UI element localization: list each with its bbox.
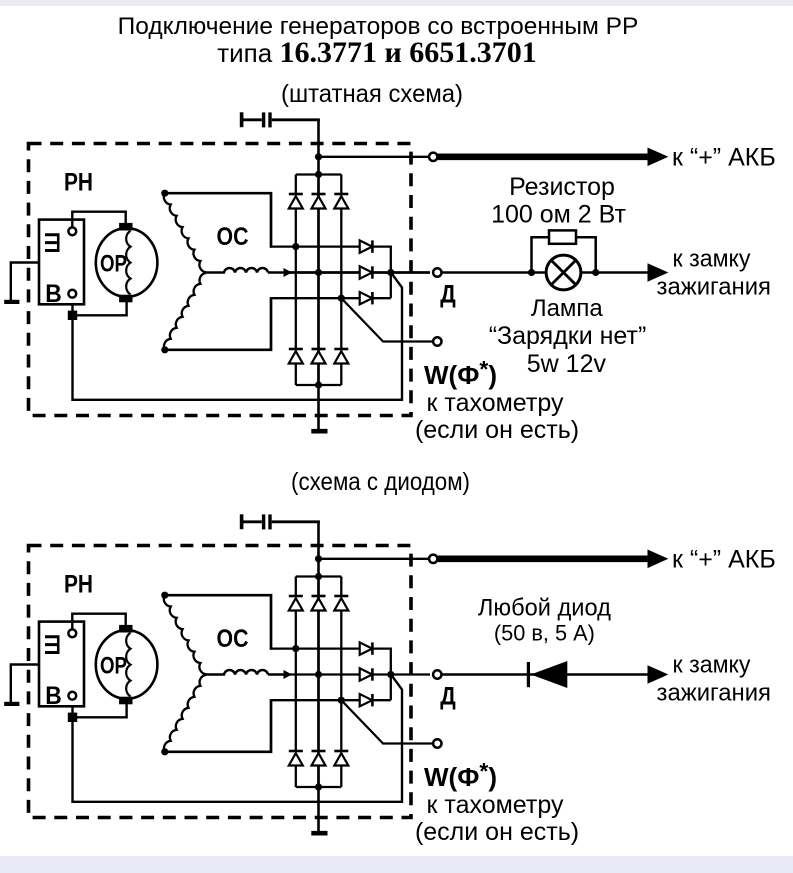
diode positive VD2 <box>312 596 326 611</box>
svg-text:В: В <box>45 280 62 308</box>
svg-text:Резистор: Резистор <box>509 173 615 201</box>
terminal V of regulator <box>68 692 76 700</box>
svg-text:зажигания: зажигания <box>657 273 772 300</box>
top page strip <box>0 0 793 6</box>
node stator tip lower <box>161 748 168 755</box>
node bottom rail junction <box>315 783 322 790</box>
diode auxiliary VD8 <box>360 668 373 680</box>
svg-text:(50 в, 5 А): (50 в, 5 А) <box>494 620 595 645</box>
node lamp right junction <box>592 269 599 276</box>
node aux output / D line <box>387 269 394 276</box>
wire rectifier column 3 <box>340 175 342 195</box>
svg-text:к тахометру: к тахометру <box>427 791 564 819</box>
wire brush minus to B corner <box>73 703 127 717</box>
wire rectifier column 1 <box>295 175 297 195</box>
svg-text:“Зарядки нет”: “Зарядки нет” <box>489 322 647 350</box>
svg-text:ОС: ОС <box>217 223 249 251</box>
rotor winding OR circle <box>96 228 158 297</box>
rectifier bottom rail <box>296 786 342 788</box>
svg-text:Ш: Ш <box>41 634 65 656</box>
diode auxiliary VD8 <box>360 266 373 278</box>
diode negative VD4 <box>289 751 303 766</box>
node phase1/column1 <box>292 243 299 250</box>
ground below rectifier <box>311 831 327 836</box>
svg-text:Д: Д <box>440 280 456 308</box>
terminal "+" output <box>429 153 437 161</box>
svg-text:(схема с диодом): (схема с диодом) <box>291 468 470 496</box>
arrow to ignition switch <box>648 665 669 684</box>
svg-text:Лампа: Лампа <box>531 295 604 322</box>
arrow to battery <box>648 550 669 569</box>
ground left chassis <box>4 300 19 304</box>
wire thick to battery <box>438 555 650 562</box>
ground below rectifier <box>311 429 327 434</box>
node phase2/column2 <box>315 269 322 276</box>
terminal "+" output <box>429 555 437 563</box>
diode auxiliary VD9 <box>360 292 373 304</box>
resistor R1 100 Ohm <box>549 230 576 243</box>
svg-text:Ш: Ш <box>41 232 65 254</box>
svg-text:Д: Д <box>440 682 456 710</box>
brush minus (bottom) <box>119 697 132 705</box>
node aux output / D line <box>387 671 394 678</box>
node phase1/column1 <box>292 645 299 652</box>
terminal W phase tap <box>433 337 441 345</box>
svg-text:ОР: ОР <box>100 251 127 278</box>
wire regulator B feed (crank down and along bottom) <box>73 675 403 802</box>
wire main plus bus vertical <box>317 522 320 832</box>
wire tachometer W tap <box>341 298 433 341</box>
generator housing dashed border <box>29 144 412 416</box>
arrow to ignition switch <box>648 263 669 282</box>
stator center phase coil horizontal <box>206 268 268 273</box>
svg-text:ОС: ОС <box>217 625 249 653</box>
svg-text:зажигания: зажигания <box>657 679 772 706</box>
wire phase 3 line <box>271 699 360 701</box>
wire coil to bridge with arrow <box>268 271 288 274</box>
diode auxiliary VD9 <box>360 694 373 706</box>
wire Sh terminal to brush plus <box>72 614 125 630</box>
voltage regulator box <box>39 220 84 305</box>
node phase3/column3 <box>338 697 345 704</box>
wire rectifier column 2 <box>317 577 319 597</box>
wire phase 2 line (center) <box>287 673 360 675</box>
node lamp left junction <box>528 269 535 276</box>
wire capacitor to bus <box>272 118 320 121</box>
svg-text:(если он есть): (если он есть) <box>415 416 579 444</box>
diode positive VD1 <box>289 194 303 209</box>
wire phase 3 line <box>271 297 360 299</box>
stator winding lower phase runs <box>165 699 271 752</box>
svg-text:РН: РН <box>64 169 93 197</box>
node phase2/column2 <box>315 671 322 678</box>
svg-text:к замку: к замку <box>673 245 751 272</box>
svg-text:к замку: к замку <box>673 651 751 678</box>
wire regulator case to ground <box>11 263 39 301</box>
brush minus (bottom) <box>119 295 132 303</box>
terminal Sh of regulator <box>68 227 76 235</box>
node stator tip lower <box>161 346 168 353</box>
arrow to battery <box>648 148 669 167</box>
wire phase 1 line <box>271 647 360 649</box>
resistor bypass wire <box>532 237 596 272</box>
diode positive VD1 <box>289 596 303 611</box>
node stator tip upper <box>161 190 168 197</box>
terminal D output <box>433 268 441 276</box>
stator winding lower phase runs <box>165 297 271 350</box>
wire D terminal to ignition switch <box>442 673 651 675</box>
rectifier top rail <box>296 173 342 175</box>
node bus/battery junction <box>315 555 322 562</box>
capacitor C2 noise-suppression <box>242 514 270 529</box>
node corner square at B wire <box>68 713 77 722</box>
stator winding upper phase runs <box>165 193 271 248</box>
stator winding upper zigzag coil <box>164 193 206 272</box>
capacitor C1 noise-suppression <box>242 112 270 127</box>
svg-text:к “+” АКБ: к “+” АКБ <box>672 143 776 171</box>
svg-text:к “+” АКБ: к “+” АКБ <box>672 545 776 573</box>
wire regulator B feed (crank down and along bottom) <box>73 273 403 400</box>
node bus/battery junction <box>315 153 322 160</box>
rectifier bottom rail <box>296 384 342 386</box>
svg-text:Любой диод: Любой диод <box>478 595 611 622</box>
bottom page strip <box>0 856 793 873</box>
node stator tip upper <box>161 592 168 599</box>
wire bus to battery terminal <box>319 156 429 158</box>
rotor winding zigzag <box>126 231 130 295</box>
wire coil to bridge with arrow <box>268 673 288 676</box>
lamp HL1 charge indicator <box>546 255 581 290</box>
diode negative VD6 <box>334 349 348 364</box>
wire rectifier column 3 <box>340 577 342 597</box>
wire phase 2 line (center) <box>287 271 360 274</box>
svg-text:к тахометру: к тахометру <box>427 389 564 417</box>
wire regulator case to ground <box>11 665 39 703</box>
diode positive VD3 <box>334 596 348 611</box>
svg-text:В: В <box>45 682 62 710</box>
wire thick to battery <box>438 154 650 161</box>
svg-text:(если он есть): (если он есть) <box>415 818 579 846</box>
wire rectifier column 1 <box>295 577 297 597</box>
wire rectifier column 2 <box>317 175 319 195</box>
node phase3/column3 <box>338 295 345 302</box>
svg-text:(штатная схема): (штатная схема) <box>281 80 463 108</box>
diode auxiliary VD7 <box>360 240 373 252</box>
rectifier top rail <box>296 575 342 577</box>
stator winding lower zigzag coil <box>164 273 206 350</box>
node corner square at B wire <box>68 311 77 320</box>
wire bus to battery terminal <box>319 558 429 560</box>
node top rail junction <box>315 573 322 580</box>
stator center phase coil horizontal <box>206 670 268 675</box>
rotor winding zigzag <box>126 633 130 697</box>
wire capacitor to bus <box>272 520 320 523</box>
rotor winding OR circle <box>96 630 158 699</box>
node bottom rail junction <box>315 381 322 388</box>
svg-text:5w 12v: 5w 12v <box>527 350 607 378</box>
stator winding upper zigzag coil <box>164 595 206 674</box>
terminal V of regulator <box>68 290 76 298</box>
wire main plus bus vertical <box>317 120 320 430</box>
wire Sh terminal to brush plus <box>72 212 125 228</box>
svg-text:ОР: ОР <box>100 653 127 680</box>
brush plus (top) <box>119 223 132 231</box>
terminal D output <box>433 670 441 678</box>
stator winding lower zigzag coil <box>164 675 206 752</box>
terminal Sh of regulator <box>68 629 76 637</box>
diode positive VD3 <box>334 194 348 209</box>
diode VD10 any diode <box>528 661 567 688</box>
stator winding upper phase runs <box>165 595 271 650</box>
wire aux diode outputs bar <box>373 246 391 299</box>
wire tachometer W tap <box>341 700 433 743</box>
svg-text:РН: РН <box>64 571 93 599</box>
diode negative VD4 <box>289 349 303 364</box>
brush plus (top) <box>119 625 132 633</box>
node top rail junction <box>315 171 322 178</box>
diode auxiliary VD7 <box>360 642 373 654</box>
wire D terminal to ignition switch <box>442 271 651 273</box>
wire phase 1 line <box>271 245 360 247</box>
svg-text:типа 16.3771 и 6651.3701: типа 16.3771 и 6651.3701 <box>217 36 537 69</box>
diode negative VD6 <box>334 751 348 766</box>
diode negative VD5 <box>312 349 326 364</box>
diode positive VD2 <box>312 194 326 209</box>
generator housing dashed border <box>29 546 412 818</box>
wire aux diode outputs bar <box>373 648 391 701</box>
diode negative VD5 <box>312 751 326 766</box>
svg-text:100 ом 2 Вт: 100 ом 2 Вт <box>491 201 626 229</box>
ground left chassis <box>4 702 19 706</box>
voltage regulator box <box>39 622 84 707</box>
wire brush minus to B corner <box>73 301 127 315</box>
terminal W phase tap <box>433 739 441 747</box>
